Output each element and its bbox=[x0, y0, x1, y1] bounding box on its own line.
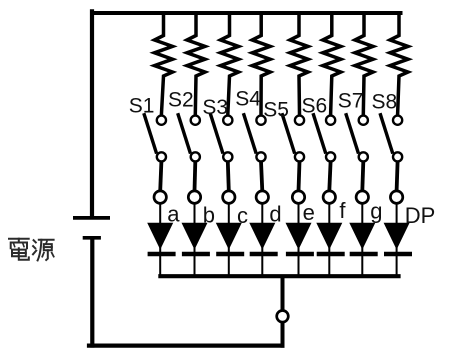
svg-text:c: c bbox=[237, 203, 248, 228]
svg-text:DP: DP bbox=[405, 203, 436, 228]
svg-text:b: b bbox=[203, 203, 215, 228]
svg-text:S7: S7 bbox=[338, 90, 364, 113]
svg-text:S8: S8 bbox=[372, 91, 398, 114]
svg-text:S2: S2 bbox=[168, 88, 194, 111]
svg-text:d: d bbox=[269, 201, 281, 226]
svg-text:S3: S3 bbox=[202, 96, 228, 119]
svg-text:g: g bbox=[370, 199, 382, 224]
svg-text:e: e bbox=[303, 200, 315, 225]
svg-text:S1: S1 bbox=[129, 95, 155, 118]
svg-text:S4: S4 bbox=[235, 87, 261, 110]
svg-text:f: f bbox=[339, 198, 346, 223]
svg-text:S6: S6 bbox=[302, 94, 328, 117]
svg-text:S5: S5 bbox=[263, 98, 289, 121]
svg-text:a: a bbox=[167, 202, 180, 227]
